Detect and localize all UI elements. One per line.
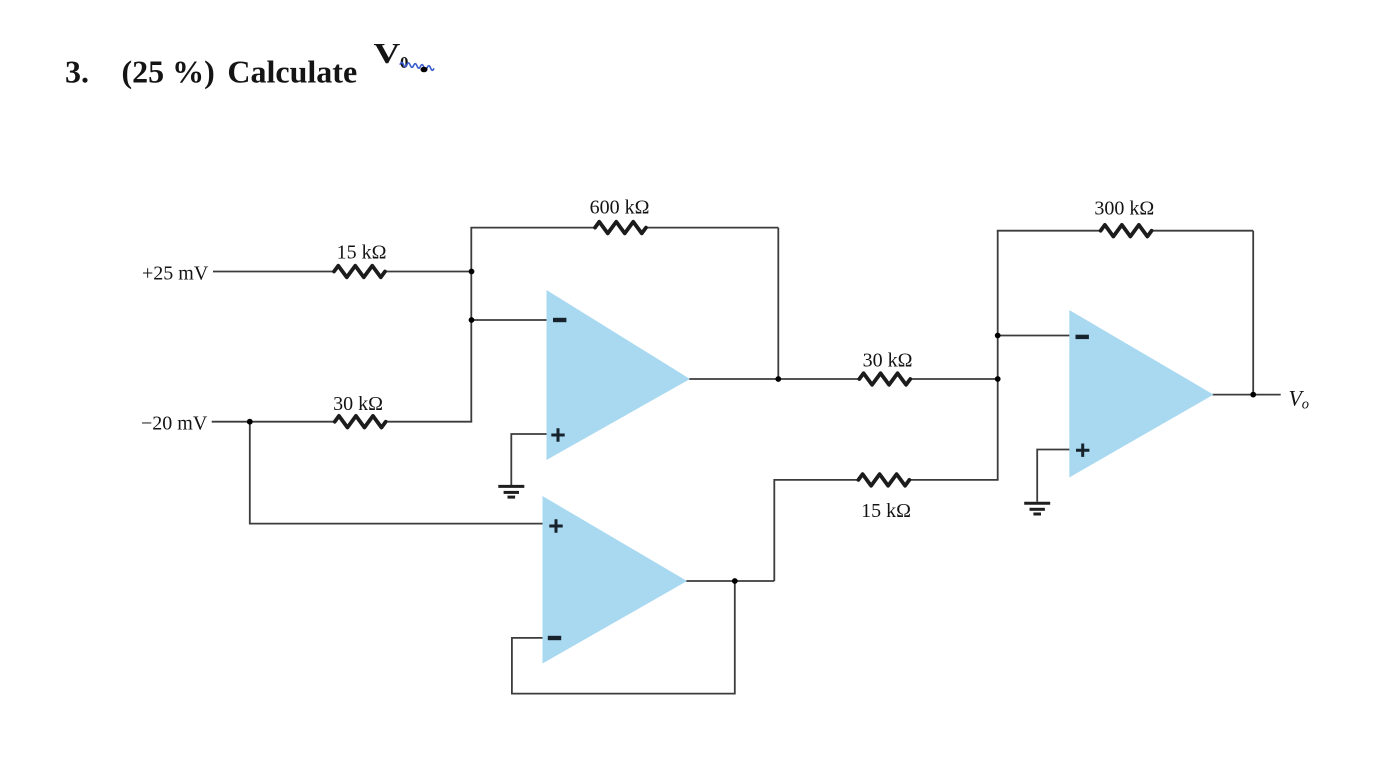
svg-text:300 kΩ: 300 kΩ bbox=[1094, 197, 1154, 219]
ground symbol G3 bbox=[1024, 503, 1050, 514]
wire R2 to bus bottom bbox=[386, 421, 473, 423]
wire inverting input op-amp U1 bbox=[471, 319, 547, 321]
wire feedback top left U1 bbox=[470, 227, 595, 229]
wire U3 output Vo bbox=[1213, 394, 1281, 396]
wire feedback right vertical U1 bbox=[777, 228, 779, 379]
wire U2 output up to 15k bbox=[774, 480, 858, 581]
junction summing bus / 30k dot bbox=[995, 376, 1001, 382]
op-amp U2 minus pin bbox=[548, 636, 561, 640]
op-amp U1 bbox=[547, 290, 691, 460]
resistor R2 30 kOhm bbox=[335, 416, 386, 428]
resistor RF1 600 kOhm bbox=[595, 222, 646, 234]
op-amp U3 plus pin bbox=[1076, 444, 1089, 457]
wire -20mV lead bbox=[212, 421, 335, 423]
svg-text:30 kΩ: 30 kΩ bbox=[863, 349, 913, 371]
resistor R1 15 kOhm bbox=[334, 266, 385, 278]
output node label Vo bbox=[1289, 386, 1310, 413]
wire inverting input op-amp U3 bbox=[998, 335, 1070, 337]
svg-text:+25 mV: +25 mV bbox=[142, 263, 209, 285]
svg-text:(25 %): (25 %) bbox=[122, 53, 215, 89]
spellcheck squiggle under V0 bbox=[400, 62, 434, 70]
svg-text:−20 mV: −20 mV bbox=[141, 413, 208, 435]
junction node A dot (bus/minus input) bbox=[469, 317, 475, 323]
svg-text:V: V bbox=[374, 38, 401, 70]
problem title "3. (25 %) Calculate" bbox=[65, 53, 357, 89]
wire U1 noninverting to ground bbox=[511, 434, 547, 485]
op-amp U1 minus pin bbox=[553, 318, 566, 322]
wire U1 output bbox=[689, 378, 859, 380]
svg-text:30 kΩ: 30 kΩ bbox=[333, 393, 383, 415]
resistor R4 15 kOhm bbox=[858, 474, 909, 486]
op-amp U1 plus pin bbox=[551, 428, 564, 441]
wire feedback top left U3 bbox=[997, 230, 1101, 232]
wire feedback right vertical U3 bbox=[1252, 231, 1254, 395]
wire vertical bus node A bbox=[470, 228, 472, 422]
wire -20mV branch down bbox=[250, 422, 544, 524]
wire feedback top right U1 bbox=[646, 227, 778, 229]
wire summing bus vertical bbox=[997, 231, 999, 480]
junction summing bus / minus input dot bbox=[995, 333, 1001, 339]
wire U3 noninverting to ground bbox=[1037, 450, 1070, 502]
wire +25mV lead bbox=[213, 271, 334, 273]
junction -20mV branch dot bbox=[247, 419, 253, 425]
junction node A dot (bus/25mV) bbox=[469, 269, 475, 275]
wire U2 feedback loop bbox=[512, 581, 735, 694]
junction U1 output / feedback dot bbox=[775, 376, 781, 382]
resistor RF3 300 kOhm bbox=[1101, 225, 1152, 237]
ground symbol G1 bbox=[498, 486, 524, 497]
wire 30k to summing bus bbox=[910, 378, 998, 380]
svg-text:600 kΩ: 600 kΩ bbox=[590, 196, 650, 218]
op-amp U2 plus pin bbox=[549, 519, 562, 532]
svg-text:o: o bbox=[1302, 397, 1309, 413]
resistor R3 30 kOhm bbox=[859, 373, 910, 385]
wire 15k to summing bus bbox=[909, 479, 998, 481]
op-amp U3 minus pin bbox=[1076, 335, 1089, 339]
junction U3 output / feedback dot bbox=[1250, 392, 1256, 398]
svg-text:Calculate: Calculate bbox=[227, 53, 357, 89]
svg-text:15 kΩ: 15 kΩ bbox=[861, 500, 911, 522]
node label V0 in title bbox=[374, 38, 409, 72]
junction U2 output / feedback dot bbox=[732, 578, 738, 584]
op-amp U2 bbox=[543, 496, 688, 664]
svg-text:3.: 3. bbox=[65, 53, 89, 89]
op-amp U3 bbox=[1069, 310, 1213, 478]
wire feedback top right U3 bbox=[1152, 230, 1254, 232]
wire R1 to node A bbox=[385, 271, 472, 273]
svg-text:15 kΩ: 15 kΩ bbox=[337, 242, 387, 264]
wire U2 output bbox=[686, 580, 774, 582]
